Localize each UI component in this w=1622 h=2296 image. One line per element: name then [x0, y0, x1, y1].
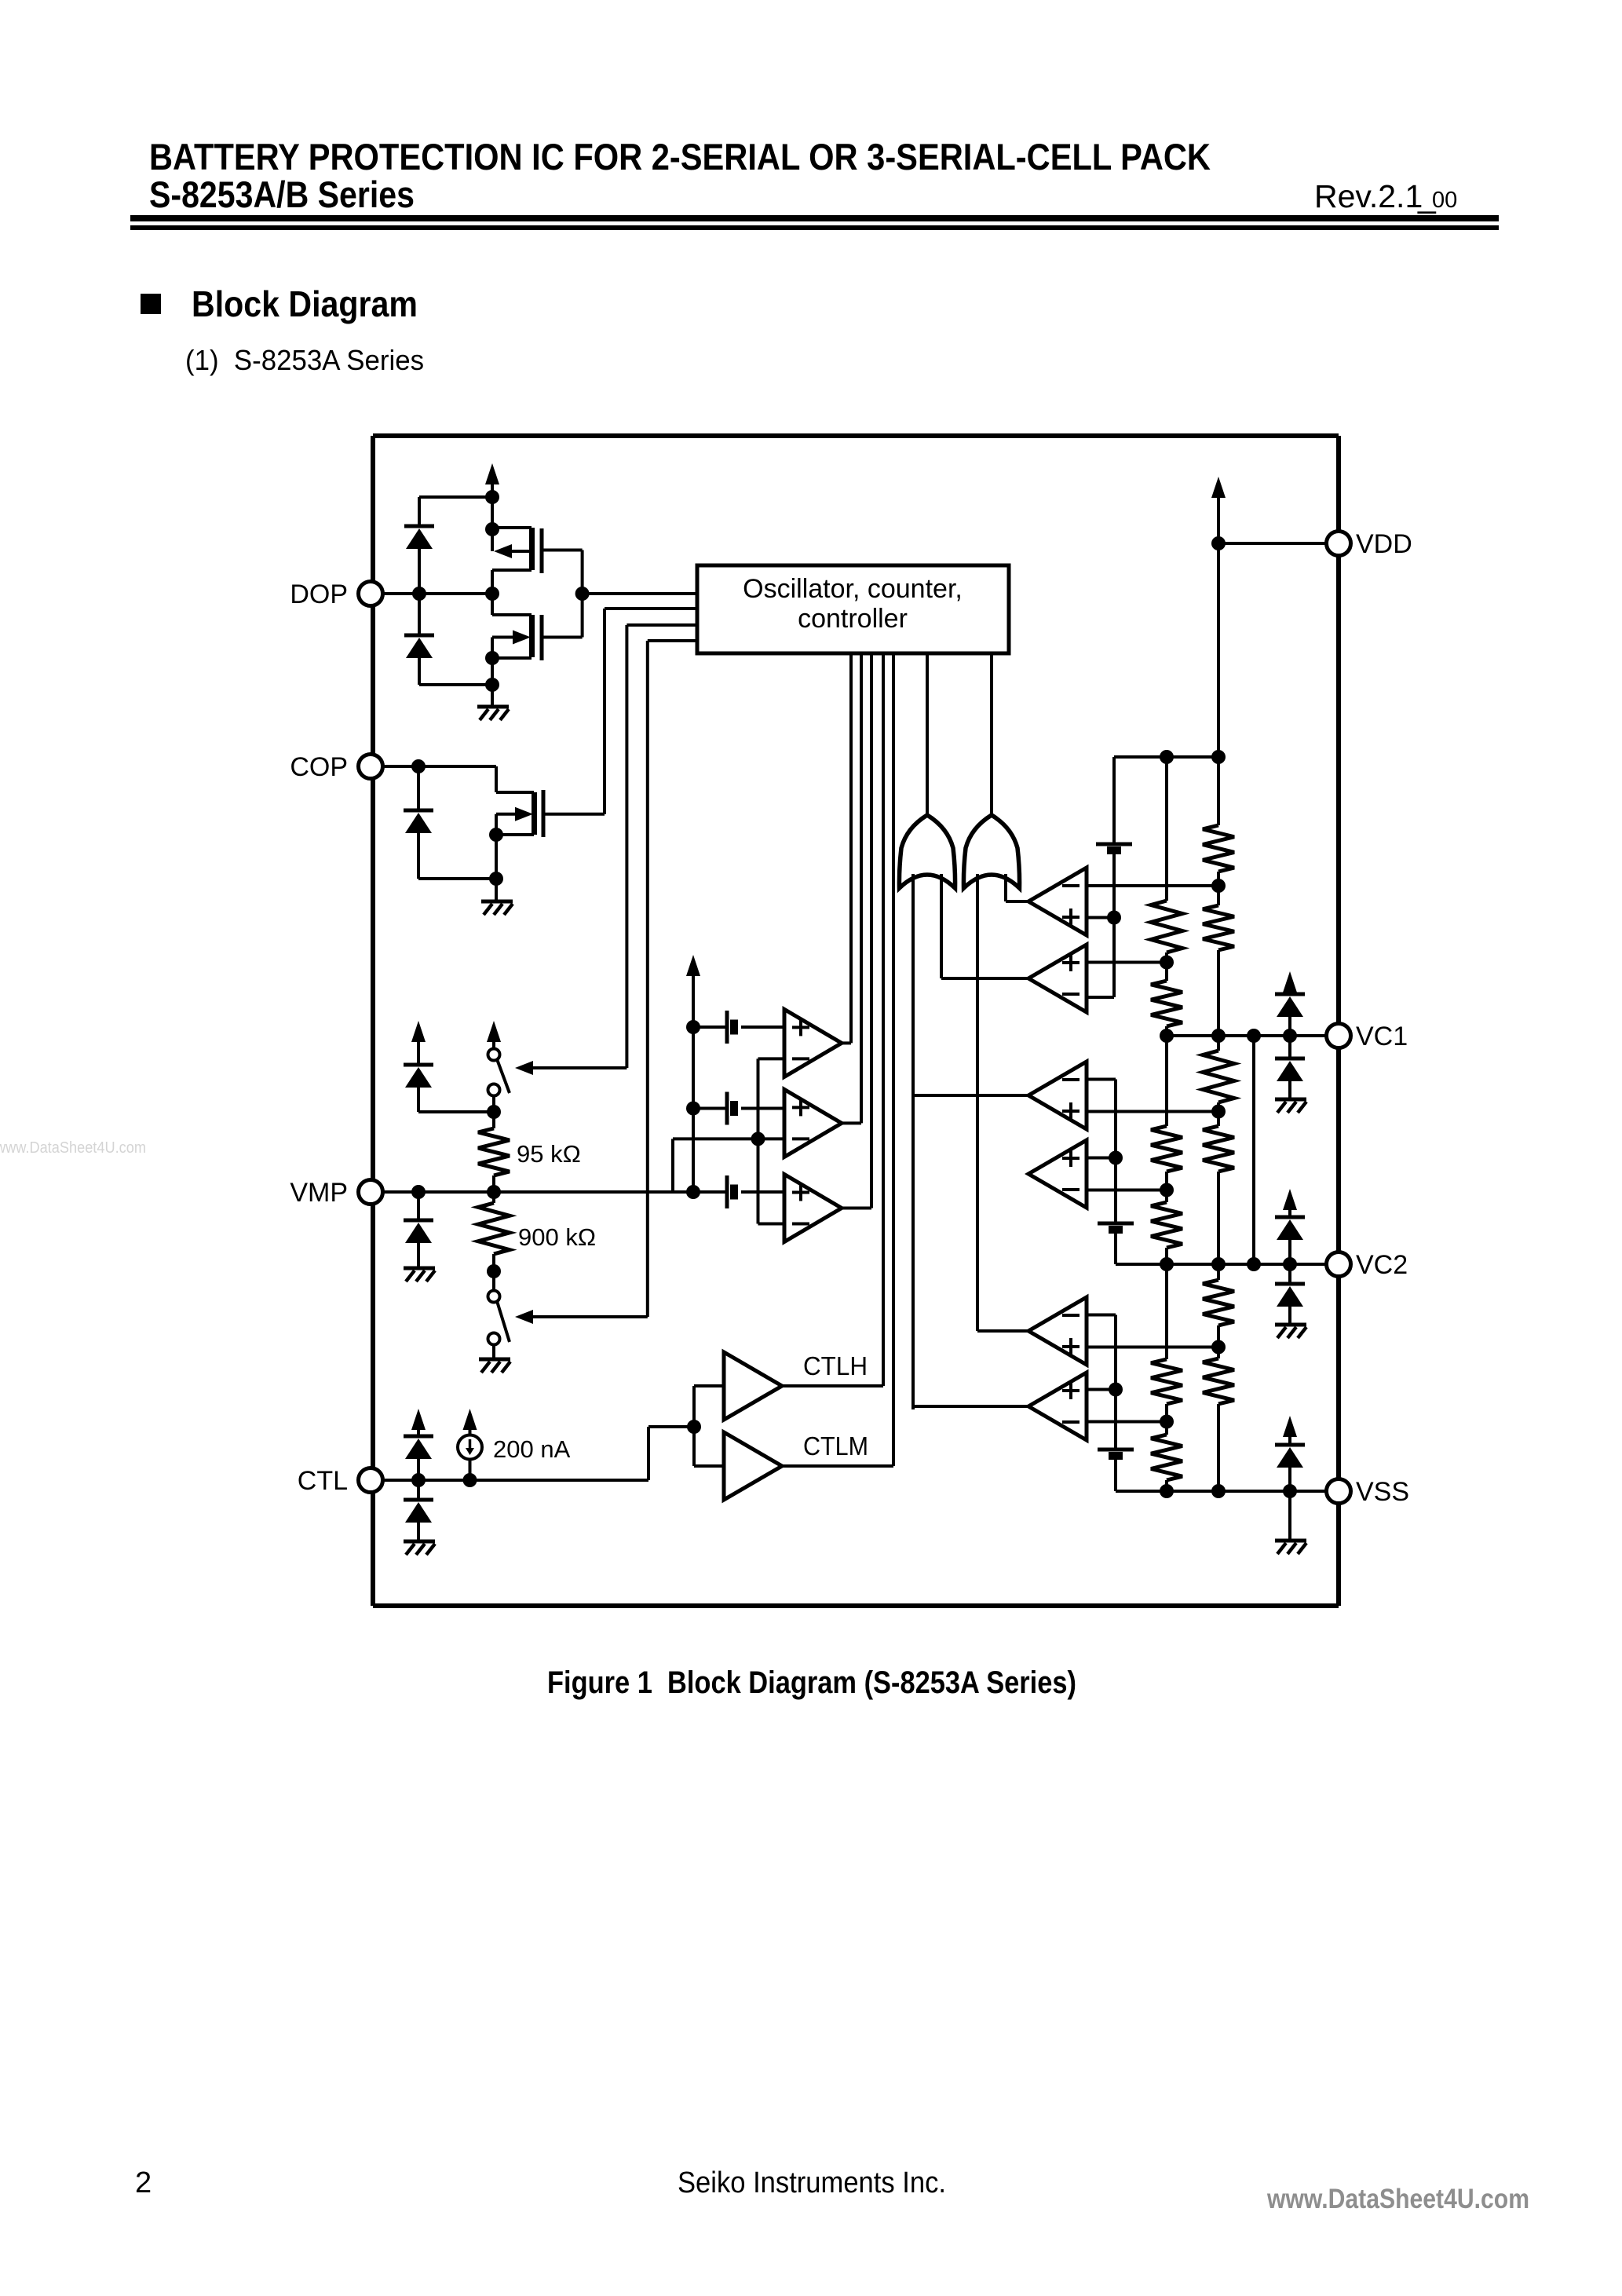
wire — [1288, 1240, 1291, 1264]
wire D1 anode to DOP — [418, 549, 421, 594]
wire bus M1 out — [849, 653, 853, 1043]
node dot VC1 link — [1247, 1029, 1261, 1043]
wire OR2 output — [990, 653, 993, 815]
wire U6 output — [913, 1405, 1028, 1408]
wire VDD pin — [1218, 542, 1327, 545]
node dot colA U2+ — [1160, 956, 1174, 970]
capacitor C1 — [725, 1011, 729, 1044]
svg-text:S-8253A/B Series: S-8253A/B Series — [149, 174, 415, 215]
svg-text:VMP: VMP — [290, 1178, 348, 1208]
wire C1 to M1 — [741, 1026, 784, 1029]
svg-text:www.DataSheet4U.com: www.DataSheet4U.com — [0, 1139, 146, 1157]
wire VSS rail — [1116, 1490, 1327, 1493]
wire — [492, 1192, 495, 1203]
wire VC2 rail — [1116, 1263, 1327, 1266]
svg-text:www.DataSheet4U.com: www.DataSheet4U.com — [1266, 2184, 1529, 2214]
buffer K1 (CTLH) — [724, 1352, 782, 1420]
comparator U6 — [1028, 1373, 1087, 1440]
svg-text:Oscillator, counter,: Oscillator, counter, — [743, 574, 963, 604]
section heading — [141, 294, 161, 314]
node dot cap C1 — [686, 1020, 700, 1034]
wire — [1217, 1112, 1220, 1127]
capacitor C2 — [725, 1092, 729, 1125]
node dot rail-colA — [1160, 750, 1174, 764]
node dot U6 plus — [1109, 1383, 1123, 1397]
node dot buffer input — [687, 1420, 701, 1434]
wire DOP top rail — [419, 495, 492, 499]
pin DOP — [359, 582, 383, 606]
diode D9 (VMP upper clamp) — [404, 1063, 433, 1067]
resistor R3 — [1151, 1126, 1182, 1172]
wire D11 to CTL — [417, 1459, 420, 1480]
svg-text:CTLM: CTLM — [803, 1431, 868, 1461]
diode D1 (DOP upper clamp) — [404, 525, 434, 528]
node dot VC1 clamp — [1283, 1029, 1297, 1043]
wire G2 input B (from comparator U1) — [1004, 874, 1007, 901]
comparator M1 — [784, 1009, 842, 1077]
wire S2 to ground — [492, 1344, 495, 1358]
wire G2 input A (from comparator U5) — [976, 874, 979, 1331]
wire K1 output to bus — [782, 1384, 883, 1387]
wire VMP pin — [382, 1190, 727, 1194]
wire — [1165, 963, 1168, 982]
wire U2 minus input — [1087, 996, 1114, 999]
node dot inverter output — [575, 587, 590, 601]
svg-text:VC1: VC1 — [1356, 1022, 1408, 1051]
resistor R5 — [1151, 1359, 1182, 1404]
capacitor C3 — [725, 1175, 729, 1208]
ground below D7 — [1275, 1323, 1306, 1327]
svg-text:900 kΩ: 900 kΩ — [518, 1223, 596, 1251]
switch S2 — [488, 1291, 500, 1303]
wire U5 plus input — [1087, 1346, 1218, 1349]
diode D8 (VSS clamp) — [1275, 1443, 1305, 1447]
power arrow VDD — [1211, 477, 1226, 498]
wire — [1217, 1036, 1220, 1051]
comparator U4 — [1028, 1140, 1087, 1208]
node dot below R14 — [487, 1264, 501, 1278]
wire B1 to U1 plus — [1112, 850, 1116, 918]
node dot divider top — [487, 1105, 501, 1119]
resistor R11 — [1203, 1280, 1234, 1325]
node dot colB VC2 — [1211, 1257, 1226, 1271]
ground below D5 — [1275, 1098, 1306, 1102]
ground below VSS — [1275, 1539, 1306, 1543]
node dot top rail — [485, 490, 499, 504]
node dot colA VSS — [1160, 1484, 1174, 1498]
wire bus M2 out — [860, 653, 863, 1123]
wire U3 minus down — [1114, 1080, 1117, 1158]
resistor R13 95k — [478, 1128, 510, 1175]
wire — [1217, 886, 1220, 905]
transistor Q1 PMOS — [529, 528, 535, 570]
diode D6 (VC2 upper clamp) — [1275, 1216, 1305, 1219]
wire bus CTLM — [892, 653, 895, 1466]
wire — [1165, 952, 1168, 963]
svg-text:2: 2 — [135, 2166, 152, 2199]
wire U1 minus input — [1087, 884, 1218, 887]
node dot colB U3+ — [1211, 1105, 1226, 1119]
wire I1 to CTL — [469, 1460, 472, 1481]
resistor R14 900k — [478, 1203, 510, 1254]
wire U3 output — [913, 1094, 1028, 1097]
ground below inverter — [477, 705, 509, 709]
svg-text:Seiko Instruments Inc.: Seiko Instruments Inc. — [678, 2166, 946, 2199]
node dot colA U4- — [1160, 1183, 1174, 1197]
wire minus tie vertical — [757, 1058, 760, 1223]
wire DOP rail to PMOS drain — [491, 497, 494, 528]
or-gate G2 — [963, 815, 1019, 888]
resistor R10 — [1203, 1126, 1234, 1172]
wire to K1 input — [692, 1386, 696, 1427]
comparator M2 — [784, 1089, 842, 1157]
wire U2 plus input — [1087, 961, 1167, 964]
node dot VC2 link — [1247, 1257, 1261, 1271]
wire D10 to ground — [417, 1243, 420, 1267]
wire M2 minus — [673, 1137, 784, 1140]
comparator U5 — [1028, 1297, 1087, 1365]
wire M2 minus to VMP — [671, 1139, 674, 1192]
resistor R8 — [1203, 905, 1234, 950]
power arrow above D9 — [411, 1021, 426, 1042]
power arrow above cap column — [686, 955, 700, 976]
ground below D12 — [404, 1540, 435, 1544]
buffer K2 (CTLM) — [724, 1432, 782, 1500]
diode D2 (DOP lower clamp) — [404, 634, 434, 638]
wire — [1288, 1017, 1291, 1036]
wire — [1165, 1172, 1168, 1190]
pin VDD — [1327, 532, 1351, 556]
node dot VMP divider — [487, 1185, 501, 1199]
power arrow above I1 — [463, 1409, 477, 1430]
node dot CTL-D11 — [411, 1473, 426, 1487]
wire — [1165, 1248, 1168, 1264]
wire M1 minus — [758, 1057, 785, 1060]
wire — [1217, 1404, 1220, 1491]
wire — [1165, 1404, 1168, 1422]
wire D3 to rail — [417, 833, 420, 879]
wire C2 to M2 — [741, 1107, 784, 1110]
battery B4 — [1098, 1448, 1134, 1452]
wire — [693, 1107, 727, 1110]
wire ground rail — [419, 683, 492, 686]
wire CTL to D12 — [417, 1480, 420, 1500]
wire top rail — [1114, 755, 1218, 759]
node dot DOP gate column — [485, 587, 499, 601]
wire B4 to VSS rail — [1114, 1456, 1117, 1491]
power arrow VC2 clamp — [1283, 1189, 1297, 1210]
wire OR1 output — [926, 653, 929, 815]
node dot cap C2 — [686, 1102, 700, 1116]
wire colA VC2 down — [1165, 1264, 1168, 1359]
node dot rail-colB — [1211, 750, 1226, 764]
wire — [1217, 1172, 1220, 1264]
diode D4 (VC1 upper clamp) — [1275, 993, 1305, 996]
wire U5 minus down — [1114, 1315, 1117, 1390]
wire — [1165, 1480, 1168, 1491]
wire U6 plus input — [1087, 1388, 1116, 1391]
wire — [1165, 1190, 1168, 1203]
svg-text:Figure 1 Block Diagram (S-825: Figure 1 Block Diagram (S-8253A Series) — [547, 1665, 1076, 1700]
diode D12 (CTL lower clamp) — [404, 1498, 433, 1502]
wire colA VC1 down — [1165, 1036, 1168, 1126]
wire U1 plus to U2 minus corner — [1112, 918, 1116, 998]
svg-text:BATTERY PROTECTION IC FOR 2-SE: BATTERY PROTECTION IC FOR 2-SERIAL OR 3-… — [149, 136, 1211, 177]
wire — [1217, 1325, 1220, 1347]
wire S1 to divider — [492, 1095, 495, 1115]
diode D5 (VC1 lower clamp) — [1275, 1057, 1305, 1061]
svg-text:VDD: VDD — [1356, 529, 1412, 559]
wire controller to switch2 branch — [648, 639, 697, 642]
transistor Q2 NMOS — [529, 615, 535, 657]
wire — [1217, 1102, 1220, 1112]
wire DOP pin to node — [382, 592, 492, 595]
svg-text:Rev.2.1: Rev.2.1 — [1314, 178, 1423, 214]
wire COP pin — [382, 765, 496, 768]
wire — [1217, 757, 1220, 825]
double rule — [130, 215, 1499, 221]
power arrow VC1 clamp — [1283, 971, 1297, 993]
comparator U2 — [1028, 945, 1087, 1012]
diode D7 (VC2 lower clamp) — [1275, 1282, 1305, 1286]
wire — [492, 1112, 495, 1128]
wire M3 minus — [758, 1223, 785, 1226]
battery B3 — [1098, 1222, 1134, 1226]
power arrow above inverter — [485, 463, 499, 484]
wire U3 plus input — [1087, 1110, 1218, 1113]
svg-text:controller: controller — [798, 604, 908, 634]
wire U3 minus input — [1087, 1078, 1116, 1081]
comparator M3 — [784, 1175, 842, 1242]
node dot colB U5+ — [1211, 1340, 1226, 1355]
node dot VMP-D9 — [411, 1185, 426, 1199]
resistor R2 — [1151, 981, 1182, 1026]
wire DOP to D2 — [418, 594, 421, 635]
diode D10 (VMP lower clamp) — [404, 1219, 433, 1223]
wire COP to D3 — [417, 766, 420, 810]
node dot colB U1- — [1211, 879, 1226, 893]
resistor R12 — [1203, 1358, 1234, 1404]
wire cap column — [692, 1027, 695, 1192]
wire G1 input A (from comparators U3/U6) — [911, 874, 915, 1409]
wire CTL pin — [382, 1479, 648, 1482]
ground below COP driver — [481, 900, 513, 904]
transistor Q3 NMOS — [532, 792, 537, 835]
pin VC2 — [1327, 1252, 1351, 1277]
wire K2 output to bus — [782, 1464, 893, 1468]
pin CTL — [359, 1468, 383, 1493]
block: Oscillator, counter, controller — [697, 565, 1009, 653]
wire bus M3 out — [870, 653, 873, 1208]
wire to ground — [491, 685, 494, 706]
wire — [1288, 1468, 1291, 1491]
resistor R9 — [1203, 1051, 1234, 1102]
wire switch2 control — [646, 641, 649, 1317]
svg-text:95 kΩ: 95 kΩ — [517, 1140, 581, 1168]
node dot COP ground rail — [489, 872, 503, 886]
node dot CTL-I1 — [463, 1473, 477, 1487]
svg-text:VC2: VC2 — [1356, 1250, 1408, 1280]
pin VSS — [1327, 1479, 1351, 1504]
comparator U3 — [1028, 1062, 1087, 1129]
wire CTL to buffers — [647, 1427, 650, 1480]
svg-text:Block Diagram: Block Diagram — [192, 283, 418, 324]
wire Q3 gate to controller — [603, 609, 606, 814]
resistor R1 — [1151, 901, 1182, 952]
node dot colA VC1 — [1160, 1029, 1174, 1043]
wire — [1165, 1422, 1168, 1435]
wire B3 to VC2 rail — [1114, 1230, 1117, 1264]
node dot COP — [411, 759, 426, 773]
wire C3 to M3 — [741, 1190, 784, 1194]
wire inverter output to controller — [583, 592, 697, 595]
power arrow above D11 — [411, 1409, 426, 1430]
ground below D10 — [404, 1267, 435, 1270]
pin COP — [359, 755, 383, 779]
wire — [1217, 950, 1220, 1036]
wire COP down to Q3 drain — [495, 766, 498, 792]
wire — [693, 1026, 727, 1029]
wire VMP to D10 — [417, 1192, 420, 1220]
pin VMP — [359, 1180, 383, 1205]
svg-text:VSS: VSS — [1356, 1477, 1409, 1507]
node dot U1 plus — [1107, 911, 1121, 925]
node dot VC2 clamp — [1283, 1257, 1297, 1271]
node dot U4 plus — [1109, 1151, 1123, 1165]
wire D9 to switch top — [417, 1088, 420, 1112]
wire Q3 source to rail — [495, 835, 498, 879]
wire to K2 input — [692, 1427, 696, 1466]
wire U1 plus input — [1087, 916, 1114, 919]
diode D11 (CTL upper clamp) — [404, 1435, 433, 1439]
svg-text:00: 00 — [1432, 188, 1457, 213]
wire D1 cathode to rail — [418, 497, 421, 526]
node dot minus tie — [751, 1132, 765, 1146]
node dot colB VC1 — [1211, 1029, 1226, 1043]
svg-text:CTLH: CTLH — [803, 1351, 868, 1380]
resistor R7 — [1203, 825, 1234, 872]
switch S1 — [488, 1049, 500, 1061]
IC boundary rectangle — [373, 433, 1339, 438]
node dot VMP caps — [686, 1185, 700, 1199]
wire — [1217, 1347, 1220, 1359]
wire controller to COP branch — [627, 623, 697, 627]
power arrow above switch S1 — [487, 1021, 501, 1042]
node dot colB VSS — [1211, 1484, 1226, 1498]
node dot colA U6- — [1160, 1415, 1174, 1429]
wire — [492, 1271, 495, 1291]
pin VC1 — [1327, 1024, 1351, 1048]
wire U4 plus input — [1087, 1157, 1116, 1160]
wire U5 minus input — [1087, 1314, 1116, 1317]
wire — [1217, 872, 1220, 886]
svg-text:DOP: DOP — [290, 579, 348, 609]
node dot VSS clamp — [1283, 1484, 1297, 1498]
wire inverter gates to output node — [581, 550, 584, 638]
wire colB top — [1217, 543, 1220, 757]
current source I1 200nA — [458, 1435, 482, 1460]
node dot VDD wire — [1211, 536, 1226, 550]
battery B1 — [1096, 843, 1132, 846]
wire D2 to ground rail — [418, 658, 421, 685]
resistor R4 — [1151, 1202, 1182, 1248]
wire VC1-VC2 link — [1252, 1036, 1255, 1264]
resistor R6 — [1151, 1435, 1182, 1480]
node dot ground rail — [485, 678, 499, 692]
svg-text:200 nA: 200 nA — [493, 1435, 571, 1463]
node dot colA VC2 — [1160, 1257, 1174, 1271]
svg-text:CTL: CTL — [298, 1466, 348, 1496]
wire VDD rail to reference chain — [1112, 757, 1116, 844]
wire to ground — [495, 879, 498, 901]
wire — [1288, 1491, 1291, 1540]
wire to battery B3 — [1114, 1158, 1117, 1224]
diode D3 (COP clamp) — [404, 809, 433, 813]
svg-text:COP: COP — [290, 752, 348, 782]
wire — [1288, 1264, 1291, 1284]
node dot DOP-D1 — [412, 587, 426, 601]
wire VC1 rail — [1167, 1034, 1327, 1037]
wire D12 to ground — [417, 1523, 420, 1541]
wire — [1217, 1264, 1220, 1280]
wire switch1 control — [625, 625, 628, 1068]
power arrow VSS clamp — [1283, 1416, 1297, 1437]
wire — [1288, 1036, 1291, 1058]
wire to battery B4 — [1114, 1390, 1117, 1450]
ground below S2 — [479, 1358, 510, 1362]
wire U4 minus input — [1087, 1189, 1167, 1192]
or-gate G1 — [899, 815, 955, 888]
wire U6 minus input — [1087, 1420, 1167, 1424]
wire colA upper — [1165, 757, 1168, 901]
wire bus CTLH — [882, 653, 885, 1386]
svg-text:(1) S-8253A Series: (1) S-8253A Series — [185, 344, 424, 376]
wire G1 input B (from comparator U2) — [940, 874, 943, 978]
comparator U1 — [1028, 868, 1087, 935]
